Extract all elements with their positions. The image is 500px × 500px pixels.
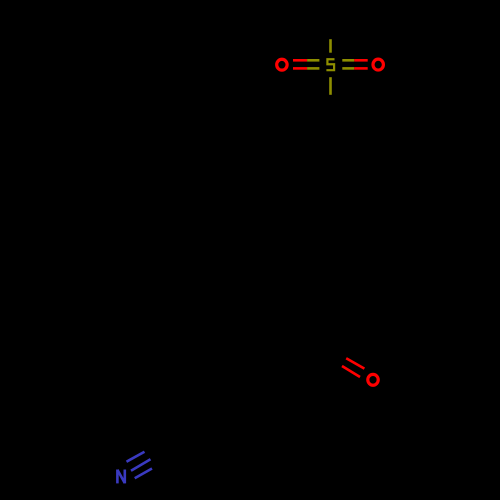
bond S1=O2 double bond, O half (red): [354, 60, 367, 68]
bond S1=O1 double bond, O half (red): [293, 60, 307, 68]
bond C=O3 double bond, O half (red): [342, 358, 364, 377]
bond S1=O1 double bond, S half (olive): [307, 60, 319, 68]
bond C#N1 triple bond, N half (blue): [127, 452, 153, 479]
oxygen O1 (left of S): [277, 59, 287, 70]
wire: carbon skeleton (drawn black on black, invisible in source): [179, 11, 380, 443]
bond CH3-S1, S half (olive): [329, 39, 332, 53]
oxygen O3 (ketone): [368, 374, 378, 385]
oxygen O2 (right of S): [373, 59, 383, 70]
nitrogen N1 (nitrile): [117, 470, 124, 484]
bond S1-C(ring), S half (olive): [329, 77, 332, 95]
bond S1=O2 double bond, S half (olive): [342, 60, 354, 68]
sulfur S1: [326, 59, 334, 70]
